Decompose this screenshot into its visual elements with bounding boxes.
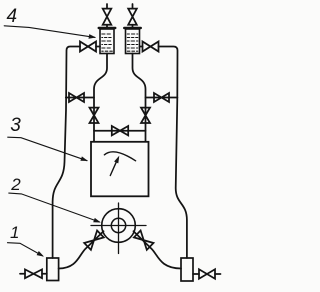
wire right tap slant from orifice (134, 231, 182, 268)
vessel 4b right condensate pot body (126, 29, 140, 54)
orifice 2 outer circle (102, 209, 136, 243)
wire equalizing line (94, 130, 146, 132)
vessel 4a left condensate pot body (100, 29, 114, 54)
valve V5 left blowdown valve (69, 93, 84, 102)
orifice horizontal centreline (91, 225, 146, 227)
valve V9 equalizing valve (112, 126, 128, 135)
valve V10 left tap 45deg valve (84, 231, 104, 250)
orifice vertical centreline (118, 203, 120, 254)
wire right pot to gauge line (133, 54, 146, 142)
leader for label 2 (9, 193, 100, 222)
fitting 1b right tap valve block (181, 258, 193, 281)
vessel 4b lid (124, 27, 141, 29)
orifice 2 inner circle (111, 218, 125, 232)
wire left blowdown line (66, 97, 94, 99)
svg-text:3: 3 (10, 115, 21, 136)
wire right pot valve stub (140, 46, 143, 48)
wire right vent stem (132, 4, 134, 28)
vessel 4a hatching (102, 34, 113, 51)
wire left vent stem (106, 4, 108, 28)
wire right blowdown line (146, 97, 178, 99)
leader for label 3 (8, 137, 87, 161)
leader for label 4 (4, 26, 95, 38)
gauge needle (110, 161, 116, 175)
valve V3 left vent valve on pot (103, 9, 112, 25)
svg-text:1: 1 (10, 223, 19, 242)
valve V8 right gauge shutoff valve (141, 108, 150, 123)
wire left drain stub (20, 273, 47, 275)
instrument 3 dp-gauge box (91, 142, 149, 197)
valve V1 left pot inlet valve (80, 42, 96, 52)
wire left tap slant from orifice (59, 231, 104, 268)
wire left outer riser (53, 47, 80, 259)
valve V7 left gauge shutoff valve (90, 108, 99, 123)
valve V4 right vent valve on pot (128, 9, 137, 25)
vessel 4b hatching (127, 34, 138, 51)
fitting 1a left tap valve block (47, 258, 59, 281)
leader for label 1 (8, 243, 43, 256)
valve V11 right tap 45deg valve (134, 231, 154, 250)
wire right outer riser (159, 47, 187, 259)
valve V2 right pot inlet valve (143, 42, 159, 52)
gauge scale arc (104, 152, 135, 161)
svg-text:4: 4 (7, 6, 18, 27)
svg-text:2: 2 (10, 175, 21, 194)
vessel 4a lid (99, 27, 116, 29)
valve V6 right blowdown valve (154, 93, 169, 102)
wire left pot valve stub (96, 46, 100, 48)
wire left pot to gauge line (94, 54, 107, 142)
wire right drain stub (193, 273, 221, 275)
valve V13 right drain valve (199, 269, 215, 278)
valve V12 left drain valve (25, 269, 42, 278)
